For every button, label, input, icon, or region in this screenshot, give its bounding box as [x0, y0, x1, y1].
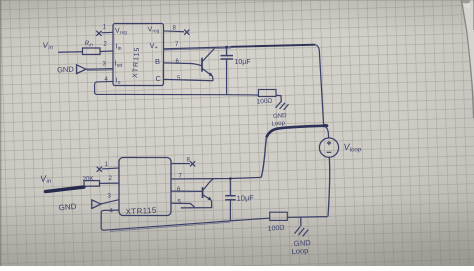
- svg-text:XTR115: XTR115: [125, 206, 157, 217]
- photo edge artifacts: [462, 0, 474, 95]
- wire rail corner down to Vloop junction: [315, 45, 324, 125]
- resistor Rin: [83, 48, 101, 55]
- svg-text:GND: GND: [58, 202, 77, 213]
- wire pin 4 loop to bottom rail: [95, 81, 227, 94]
- wire R3 to corner: [287, 216, 327, 219]
- wire pin 1 stub: [102, 31, 114, 34]
- wire thick curve to Vloop junction: [266, 126, 328, 138]
- wire pin 1 stub: [102, 167, 119, 170]
- wire junction to Vloop: [325, 126, 329, 138]
- no-connect X on pin 8: [184, 30, 189, 35]
- wire Vin to Rin: [58, 51, 83, 54]
- wire pin 6 to base: [164, 63, 203, 66]
- wire pin 8 stub: [164, 30, 185, 33]
- wire pin 4 loop into bottom rail: [101, 210, 270, 230]
- svg-text:C: C: [156, 74, 162, 83]
- svg-text:10µF: 10µF: [236, 193, 254, 203]
- resistor R3 100ohm: [270, 212, 288, 220]
- wire thick riser from bottom circuit V+: [261, 137, 266, 177]
- wire R2 to pin 2: [100, 182, 120, 184]
- wire Vin thick stroke: [46, 187, 85, 192]
- svg-text:GND: GND: [57, 65, 75, 75]
- no-connect X on pin 1: [97, 167, 102, 172]
- transistor Q1: [202, 48, 215, 81]
- capacitor C1 10uF: [221, 46, 234, 95]
- IC U2 XTR115 (bottom): [119, 158, 171, 216]
- resistor R1 100ohm: [259, 90, 282, 103]
- wire GND to pin 3: [101, 200, 119, 204]
- svg-text:Loop: Loop: [271, 121, 285, 128]
- ground GND Loop stub (bottom): [300, 217, 302, 226]
- no-connect X on pin 8: [190, 161, 195, 166]
- no-connect X on pin 1: [96, 31, 101, 36]
- svg-text:B: B: [155, 57, 160, 66]
- svg-text:10µF: 10µF: [235, 59, 251, 66]
- resistor R2 20K: [84, 181, 100, 187]
- junction node at Vloop top: [322, 124, 328, 127]
- wire pin 6 to base: [171, 190, 202, 192]
- wire V+ rail from pin 7: [164, 45, 316, 49]
- wire pin 5 emitter return: [171, 201, 212, 208]
- transistor Q2: [203, 179, 214, 201]
- svg-text:Loop: Loop: [291, 246, 308, 256]
- capacitor C2 10uF: [225, 177, 236, 221]
- wire pin 8 stub: [171, 162, 190, 164]
- source Vloop: [319, 138, 338, 157]
- ground GND Loop (top): [276, 102, 289, 110]
- wire Vloop bottom to bottom rail: [328, 157, 330, 216]
- svg-text:100Ω: 100Ω: [267, 225, 284, 233]
- svg-text:20K: 20K: [82, 175, 94, 183]
- wire pin 5 emitter return: [164, 79, 214, 80]
- wire pin 7 rail to riser: [171, 177, 261, 179]
- IC U1 XTR115 (top): [113, 24, 164, 86]
- svg-text:GND: GND: [273, 113, 287, 120]
- wire Rin to pin 2: [100, 50, 113, 53]
- wire cap junction to R1: [227, 94, 259, 96]
- svg-text:100Ω: 100Ω: [256, 98, 272, 106]
- wire GND to pin 3: [86, 68, 113, 71]
